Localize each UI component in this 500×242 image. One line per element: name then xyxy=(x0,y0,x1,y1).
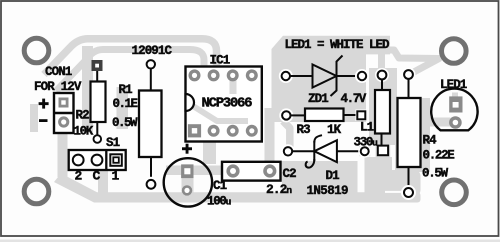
triangle xyxy=(313,65,337,88)
svg-text:2.2n: 2.2n xyxy=(266,182,292,197)
pad D1 cathode xyxy=(281,144,295,158)
svg-text:C2: C2 xyxy=(283,167,297,181)
copper zone below D1 (merges into bottom band) xyxy=(282,161,358,203)
wire xyxy=(292,150,314,152)
resistor R2 xyxy=(91,60,106,143)
copper blob around R4 bottom xyxy=(385,170,421,196)
resistor R1 xyxy=(139,60,162,192)
copper block A (ZD1/R3 region) xyxy=(272,36,391,122)
wire traces inside IC xyxy=(193,106,248,121)
svg-text:R2: R2 xyxy=(76,109,90,123)
svg-text:1K: 1K xyxy=(327,123,342,137)
svg-text:NCP3066: NCP3066 xyxy=(202,96,253,112)
IC1 pin pads bottom row xyxy=(188,124,201,137)
svg-text:1: 1 xyxy=(112,169,120,184)
mounting hole top-right xyxy=(442,39,467,64)
IC U1 NCP3066 xyxy=(186,67,262,142)
wire trace patch left of CON1 xyxy=(30,104,38,132)
svg-text:C: C xyxy=(93,169,101,184)
mounting hole bottom-right xyxy=(442,180,467,205)
bottom band xyxy=(54,176,372,203)
resistor R4 xyxy=(398,68,421,201)
IC1 pin pads top row xyxy=(188,69,258,137)
wire trace block A to D1 left pad xyxy=(283,121,290,147)
copper pad zone under L1 bottom pad xyxy=(376,144,391,157)
svg-text:4.7V: 4.7V xyxy=(341,92,367,106)
inductor L1 xyxy=(375,68,390,155)
svg-text:L1: L1 xyxy=(360,121,374,135)
wire xyxy=(337,75,359,77)
svg-text:ZD1: ZD1 xyxy=(308,92,328,106)
copper column behind R4 xyxy=(395,98,430,172)
copper strip inside C1 xyxy=(182,164,194,195)
svg-text:1N5819: 1N5819 xyxy=(307,184,349,198)
switch S1 xyxy=(69,150,126,170)
triangle xyxy=(314,140,337,162)
white streak left of R4 bottom pad xyxy=(385,191,403,193)
copper trace into LED1 left xyxy=(428,118,451,127)
schottky bar with hooks xyxy=(314,135,322,142)
svg-text:LED1: LED1 xyxy=(440,78,467,92)
capacitor C1 xyxy=(164,158,212,206)
svg-text:S1: S1 xyxy=(106,136,120,150)
pad ZD1 cathode xyxy=(355,69,369,83)
label - (CON1) xyxy=(39,119,48,122)
svg-text:100u: 100u xyxy=(207,195,232,209)
svg-text:0.1E: 0.1E xyxy=(113,97,138,111)
svg-text:2: 2 xyxy=(75,169,83,184)
wire trace stub band to L1 top pad xyxy=(378,54,385,70)
svg-text:LED1 = WHITE LED: LED1 = WHITE LED xyxy=(285,38,391,52)
copper column behind L1 xyxy=(369,68,397,145)
copper zone behind C2 xyxy=(221,162,282,181)
IC notch xyxy=(186,94,195,111)
white channel between D1 zone and L1 zone xyxy=(358,158,365,192)
capacitor C2 xyxy=(222,162,281,181)
wire trace T1 outer (CON1 to IC pin8) xyxy=(44,39,217,75)
label + (C1) xyxy=(182,144,192,154)
copper band C1 to C2 xyxy=(166,166,222,176)
mounting hole top-left xyxy=(24,38,49,63)
svg-text:0.5W: 0.5W xyxy=(112,116,138,130)
wire trace IC bottom to C2 xyxy=(203,140,216,164)
copper zone right of channel (L1/D1 pads down) xyxy=(365,157,393,196)
mounting hole bottom-left xyxy=(24,179,49,204)
wire trace vertical strip x116 xyxy=(117,87,129,129)
wire trace S1 to bottom band xyxy=(98,170,108,194)
svg-text:0.5W: 0.5W xyxy=(422,167,449,181)
wire trace strip right of IC xyxy=(265,108,275,165)
svg-text:IC1: IC1 xyxy=(210,54,230,68)
pad ZD1 anode xyxy=(279,69,293,83)
wire trace vertical behind R2 xyxy=(82,46,93,132)
diode D1 xyxy=(281,135,371,167)
connector CON1 xyxy=(54,93,74,133)
label + (CON1) xyxy=(39,99,49,109)
wire xyxy=(337,150,360,152)
pad D1 anode xyxy=(358,145,371,158)
wire trace CON1 down to bottom bevel xyxy=(58,132,68,177)
cathode bar with bends xyxy=(331,56,343,97)
resistor R3 xyxy=(279,108,367,122)
wire trace stepped, elbow to R4 top pad xyxy=(389,50,439,73)
wire trace T2 inner (CON1 to IC pin7) xyxy=(56,50,204,92)
svg-text:D1: D1 xyxy=(326,169,340,183)
wire xyxy=(290,75,313,77)
svg-text:FOR 12V: FOR 12V xyxy=(34,80,82,94)
svg-text:R4: R4 xyxy=(423,134,438,148)
svg-text:0.22E: 0.22E xyxy=(423,149,455,163)
svg-text:12091C: 12091C xyxy=(132,44,173,58)
svg-text:R1: R1 xyxy=(119,83,133,97)
svg-text:10K: 10K xyxy=(74,125,94,139)
svg-text:330u: 330u xyxy=(354,136,379,150)
copper pad zone under D1 right pad xyxy=(359,146,370,156)
svg-text:R3: R3 xyxy=(297,123,311,137)
LED LED1 xyxy=(431,89,477,131)
wire trace stub band to ZD1 right pad xyxy=(358,54,365,70)
zener ZD1 xyxy=(279,56,369,97)
svg-text:CON1: CON1 xyxy=(45,65,72,79)
